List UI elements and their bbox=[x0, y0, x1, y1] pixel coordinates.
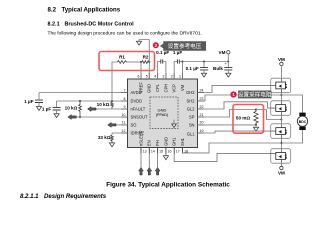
wire GND pin 5 riser bbox=[139, 40, 149, 80]
thermal pad GND (PPAD) bbox=[150, 97, 178, 129]
wire VM rail bbox=[183, 61, 229, 63]
resistor R4 10k (SNSOUT pullup) bbox=[65, 101, 82, 117]
svg-text:Bulk: Bulk bbox=[213, 66, 223, 71]
wire SO bbox=[116, 124, 128, 126]
ground (AVDD cap) bbox=[36, 107, 41, 111]
ground (pin 16) bbox=[163, 156, 168, 160]
svg-text:VM: VM bbox=[219, 50, 226, 55]
IC U1 DRV8701 body bbox=[128, 79, 198, 148]
svg-text:33 kΩ: 33 kΩ bbox=[98, 135, 111, 140]
svg-text:SNSOUT: SNSOUT bbox=[131, 115, 149, 120]
wire Rsense bottom stem bbox=[255, 125, 257, 127]
svg-text:14: 14 bbox=[151, 150, 155, 154]
wire CPL riser bbox=[158, 62, 161, 80]
svg-text:设置采样电阻: 设置采样电阻 bbox=[238, 90, 272, 98]
terminal VM (H-bridge bottom) bbox=[278, 163, 285, 175]
svg-text:GND: GND bbox=[163, 137, 168, 146]
resistor R2 bbox=[142, 55, 150, 64]
svg-text:EN: EN bbox=[147, 140, 152, 146]
pin 18 SH1 bbox=[180, 137, 188, 153]
junction DVDD/10k pullup A bbox=[79, 100, 81, 102]
svg-text:PH: PH bbox=[155, 140, 160, 146]
svg-text:8.2.1.1: 8.2.1.1 bbox=[20, 194, 39, 200]
svg-text:9: 9 bbox=[124, 105, 126, 109]
svg-text:20: 20 bbox=[200, 121, 204, 125]
svg-text:VREF: VREF bbox=[138, 82, 143, 93]
svg-text:10: 10 bbox=[122, 113, 126, 117]
ground (C5) bbox=[201, 73, 206, 77]
pin 16 GND bbox=[163, 137, 171, 154]
svg-text:Design Requirements: Design Requirements bbox=[44, 194, 107, 200]
junction SN / Rsense bottom bbox=[255, 124, 257, 126]
pin 21 SP bbox=[189, 113, 204, 120]
junction DVDD/10k pullup B and divider bbox=[111, 100, 113, 102]
svg-text:Typical Applications: Typical Applications bbox=[62, 6, 121, 13]
terminal arrow PH bbox=[155, 168, 160, 176]
wire SN bbox=[198, 124, 257, 126]
svg-text:0.1 µF: 0.1 µF bbox=[186, 66, 199, 71]
svg-text:nSLEEP: nSLEEP bbox=[138, 130, 143, 146]
junction SNSOUT/pullup bbox=[79, 116, 81, 118]
svg-text:DVDD: DVDD bbox=[131, 99, 143, 104]
wire PH input bbox=[157, 154, 159, 168]
svg-text:1: 1 bbox=[179, 75, 181, 79]
svg-text:BDC: BDC bbox=[299, 120, 307, 124]
pin 19 GL1 bbox=[187, 129, 204, 137]
svg-text:CPH: CPH bbox=[163, 84, 168, 93]
wire chain Q3-Q4 bbox=[280, 138, 282, 148]
capacitor C5 0.1uF (VM) bbox=[186, 62, 208, 74]
wire GH2 gate bbox=[198, 85, 271, 92]
pin 5 GND bbox=[146, 73, 152, 93]
svg-text:8.2.1: 8.2.1 bbox=[48, 21, 60, 27]
wire chain Q1-Q2 bbox=[280, 93, 282, 101]
junction VM pin / rail bbox=[182, 61, 184, 63]
svg-text:GL2: GL2 bbox=[187, 107, 195, 112]
pin 6 VREF bbox=[138, 73, 144, 93]
red box around sense resistor bbox=[233, 105, 264, 134]
wire VCP riser bbox=[174, 62, 177, 80]
transistor Q4 (GH1 high-side FET) bbox=[271, 149, 291, 164]
pin 17 GH1 bbox=[172, 137, 180, 154]
pin 22 GL2 bbox=[187, 105, 204, 112]
svg-text:GND: GND bbox=[158, 107, 167, 112]
capacitor C4 1uF (VCP) bbox=[173, 50, 182, 64]
heading 8.2 bbox=[48, 6, 121, 13]
terminal arrow SNSOUT bbox=[68, 115, 77, 120]
pin 1 VM bbox=[179, 73, 185, 91]
pin 9 nFAULT bbox=[121, 105, 146, 112]
svg-text:21: 21 bbox=[200, 113, 204, 117]
svg-text:10 kΩ: 10 kΩ bbox=[97, 102, 110, 107]
red box around R1 R2 bbox=[99, 52, 155, 71]
pin 3 CPH bbox=[162, 73, 168, 93]
svg-text:11: 11 bbox=[122, 121, 126, 125]
wire R1 to VREF node bbox=[127, 61, 141, 63]
transistor Q2 (GL2 low-side FET) bbox=[271, 101, 291, 116]
ground (top divider) bbox=[136, 41, 141, 45]
junction SP / Rsense top bbox=[255, 109, 257, 111]
svg-text:R2: R2 bbox=[143, 55, 149, 60]
svg-text:+: + bbox=[225, 62, 228, 66]
wire GL1 gate bbox=[198, 131, 271, 133]
svg-text:19: 19 bbox=[200, 129, 204, 133]
svg-text:22: 22 bbox=[200, 105, 204, 109]
node VREF tap bbox=[140, 61, 142, 63]
svg-text:GH2: GH2 bbox=[186, 90, 195, 95]
wire GND pin 16 bbox=[165, 154, 167, 156]
svg-text:VM: VM bbox=[278, 170, 285, 175]
resistor R6 50 mOhm sense bbox=[236, 110, 258, 125]
svg-text:1 µF: 1 µF bbox=[42, 106, 51, 111]
svg-text:1 µF: 1 µF bbox=[24, 99, 33, 104]
wire GH1 gate bbox=[174, 154, 271, 162]
svg-text:VM: VM bbox=[180, 84, 185, 91]
svg-text:The following design procedure: The following design procedure can be us… bbox=[48, 30, 202, 36]
capacitor C2 1uF (DVDD) bbox=[42, 106, 61, 113]
terminal arrow nFAULT bbox=[88, 107, 97, 112]
svg-text:GH1: GH1 bbox=[172, 137, 177, 146]
pin 20 SN bbox=[189, 121, 204, 128]
svg-text:GND: GND bbox=[147, 84, 152, 93]
svg-text:Brushed-DC Motor Control: Brushed-DC Motor Control bbox=[65, 21, 135, 27]
wire nFAULT bbox=[96, 108, 128, 110]
wire GL2 gate bbox=[198, 102, 271, 109]
ground (DVDD cap) bbox=[54, 114, 59, 118]
pin 4 CPL bbox=[154, 73, 160, 92]
svg-text:7: 7 bbox=[124, 88, 126, 92]
pin 2 VCP bbox=[171, 73, 177, 93]
junction VM rail / bulk bbox=[227, 61, 229, 63]
node R2/GND pin bbox=[148, 61, 150, 63]
svg-text:5: 5 bbox=[146, 75, 148, 79]
capacitor C1 1uF (AVDD) bbox=[24, 99, 43, 107]
svg-text:R1: R1 bbox=[119, 55, 125, 60]
svg-text:CPL: CPL bbox=[155, 83, 160, 92]
svg-text:0.1 µF: 0.1 µF bbox=[156, 50, 169, 55]
svg-text:8.2: 8.2 bbox=[48, 6, 57, 13]
wire VM pin riser bbox=[180, 62, 183, 80]
svg-text:SN: SN bbox=[189, 123, 195, 128]
pin 12 IDRIVE bbox=[121, 129, 144, 136]
svg-text:1: 1 bbox=[232, 92, 235, 97]
svg-text:VCP: VCP bbox=[172, 84, 177, 93]
svg-text:Figure 34. Typical Applicatio: Figure 34. Typical Application Schematic bbox=[106, 181, 230, 188]
svg-text:16: 16 bbox=[168, 150, 172, 154]
red circle 1 bbox=[230, 91, 236, 97]
ground (bulk cap) bbox=[226, 73, 231, 77]
wire chain Q2-Q3 bbox=[280, 115, 282, 124]
svg-text:SO: SO bbox=[131, 123, 137, 128]
wire AVDD bbox=[39, 93, 128, 100]
resistor R1 bbox=[118, 55, 128, 64]
terminal arrow EN bbox=[147, 168, 152, 176]
svg-text:VM: VM bbox=[278, 57, 285, 62]
wire VREF to pin 6 bbox=[140, 62, 142, 79]
svg-text:17: 17 bbox=[176, 150, 180, 154]
heading 8.2.1 bbox=[48, 21, 135, 27]
junction SH1 chain bbox=[280, 142, 282, 144]
red circle 2 bbox=[153, 42, 159, 48]
junction SH2 chain bbox=[280, 94, 282, 96]
ground (sense resistor) bbox=[253, 127, 258, 131]
wire SH2 to motor bbox=[281, 95, 302, 113]
capacitor C3 0.1uF (charge pump) bbox=[156, 50, 169, 64]
junction VM rail / C5 bbox=[203, 61, 205, 63]
wire IDRIVE bbox=[112, 133, 128, 135]
wire divider feed from DVDD bbox=[112, 62, 118, 101]
svg-text:12: 12 bbox=[122, 129, 126, 133]
svg-text:10 kΩ: 10 kΩ bbox=[65, 105, 78, 110]
pin 10 SNSOUT bbox=[121, 113, 148, 120]
pin 7 AVDD bbox=[121, 88, 142, 95]
svg-text:SH2: SH2 bbox=[187, 99, 196, 104]
pin 15 PH bbox=[155, 140, 163, 153]
junction sense chain bbox=[280, 119, 282, 121]
svg-text:(PPAD): (PPAD) bbox=[156, 113, 169, 117]
transistor Q1 (GH2 high-side FET) bbox=[271, 78, 291, 93]
svg-text:24: 24 bbox=[200, 88, 204, 92]
svg-text:SP: SP bbox=[189, 115, 195, 120]
svg-text:15: 15 bbox=[159, 150, 163, 154]
svg-text:2: 2 bbox=[171, 75, 173, 79]
wire Rsense top to chain bbox=[256, 110, 281, 120]
resistor R3 10k (nFAULT pullup) bbox=[97, 101, 114, 109]
terminal VM supply bbox=[219, 50, 230, 61]
svg-text:23: 23 bbox=[200, 97, 204, 101]
callout set sense resistor bbox=[238, 90, 272, 98]
resistor R5 33k (IDRIVE) bbox=[98, 135, 114, 143]
wire SP bbox=[198, 110, 257, 118]
callout set reference voltage bbox=[160, 41, 206, 51]
svg-text:13: 13 bbox=[143, 150, 147, 154]
wire SH1 from pin 18 bbox=[183, 130, 303, 154]
pin 13 nSLEEP bbox=[138, 130, 146, 153]
pin 8 DVDD bbox=[121, 97, 142, 104]
pin 14 EN bbox=[147, 140, 155, 153]
svg-text:6: 6 bbox=[138, 75, 140, 79]
svg-text:设置参考电压: 设置参考电压 bbox=[168, 42, 202, 50]
wire SNSOUT bbox=[76, 116, 127, 118]
capacitor C6 Bulk (VM) bbox=[213, 62, 232, 74]
svg-text:4: 4 bbox=[154, 75, 156, 79]
svg-text:2: 2 bbox=[155, 43, 158, 48]
svg-text:GL1: GL1 bbox=[187, 132, 195, 137]
wire nSLEEP input bbox=[140, 154, 142, 168]
wire DVDD bbox=[57, 101, 128, 107]
svg-text:nFAULT: nFAULT bbox=[131, 107, 146, 112]
svg-text:3: 3 bbox=[162, 75, 164, 79]
terminal VM (H-bridge top) bbox=[278, 57, 285, 78]
transistor Q3 (GL1 low-side FET) bbox=[271, 124, 291, 139]
pin 23 SH2 bbox=[187, 97, 204, 104]
pin 24 GH2 bbox=[186, 88, 204, 95]
svg-text:50 mΩ: 50 mΩ bbox=[236, 115, 250, 120]
ground (IDRIVE resistor) bbox=[109, 143, 114, 147]
pin 11 SO bbox=[121, 121, 136, 128]
wire SH2 / node SH2 bbox=[198, 95, 282, 101]
motor M1 BDC bbox=[297, 113, 307, 130]
svg-text:8: 8 bbox=[124, 97, 126, 101]
svg-text:1 µF: 1 µF bbox=[173, 50, 182, 55]
terminal arrow SO bbox=[108, 123, 116, 128]
wire EN input bbox=[148, 154, 150, 168]
wire CPH riser bbox=[163, 62, 166, 80]
terminal arrow nSLEEP bbox=[139, 168, 144, 176]
heading 8.2.1.1 bbox=[20, 194, 107, 200]
svg-text:SH1: SH1 bbox=[180, 137, 185, 146]
